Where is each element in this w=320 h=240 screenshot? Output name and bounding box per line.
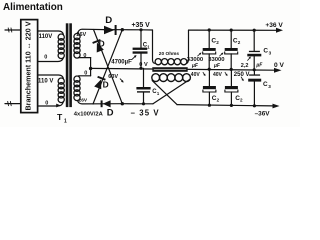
svg-text:2: 2	[238, 40, 241, 45]
svg-text:– 35 V: – 35 V	[131, 108, 160, 117]
svg-text:0: 0	[83, 53, 86, 59]
node C2b top	[230, 29, 233, 32]
diode D1 top	[104, 26, 115, 34]
arrow 40V first	[203, 72, 205, 75]
arrow to C2b	[220, 53, 223, 56]
wire 0V rail	[91, 68, 275, 70]
node center tap	[89, 67, 92, 70]
svg-text:0: 0	[45, 101, 48, 107]
svg-text:26V: 26V	[79, 97, 88, 103]
wire bridge diagonal A	[94, 30, 123, 104]
svg-text:D: D	[103, 80, 109, 90]
wire primary 1 top lead	[38, 31, 64, 34]
svg-text:40V: 40V	[191, 72, 201, 78]
wire choke to +36V rail	[187, 30, 189, 63]
svg-text:110 V: 110 V	[38, 79, 53, 85]
svg-text:26V: 26V	[76, 32, 86, 38]
voltage selector box Branchement 110-220V	[21, 20, 38, 113]
capacitor C2a lower stub	[208, 69, 210, 86]
wire center-tap vertical	[90, 58, 92, 76]
node C3 bottom	[253, 104, 256, 107]
svg-text:+36 V: +36 V	[265, 22, 283, 29]
wire choke X diagonal up	[153, 80, 189, 104]
diode D3 on diagonal B	[94, 76, 106, 90]
svg-text:µF: µF	[213, 63, 221, 69]
node bottom rail after bridge	[121, 102, 124, 105]
svg-text:1: 1	[64, 119, 67, 125]
wire secondary bottom tap 26V	[78, 101, 101, 104]
node C2b bottom	[230, 104, 233, 107]
node C1 lower bottom	[142, 102, 145, 105]
capacitor C2a upper stub	[208, 30, 210, 48]
node C2a bottom	[208, 104, 211, 107]
svg-text:T: T	[57, 112, 63, 122]
svg-text:Branchement 110 ↔ 220 V: Branchement 110 ↔ 220 V	[24, 21, 33, 111]
node C3 top	[253, 29, 256, 32]
wire +35V rail drop to choke	[153, 30, 156, 63]
svg-text:1: 1	[147, 44, 150, 49]
mains input wire top	[5, 29, 21, 31]
arrow 40V second	[225, 72, 227, 75]
svg-text:3: 3	[268, 84, 271, 89]
svg-text:2: 2	[240, 98, 243, 103]
svg-text:0 V: 0 V	[274, 62, 284, 69]
wire bottom rail right	[177, 105, 273, 106]
arrow to C2a	[198, 53, 201, 56]
capacitor C1 lower stub	[143, 68, 145, 87]
node C1 upper top	[139, 28, 142, 31]
arrow to C1 upper	[132, 56, 136, 60]
svg-text:2,2: 2,2	[241, 63, 249, 69]
capacitor C1 upper stub	[140, 30, 142, 48]
wire top rail left	[104, 29, 153, 31]
wire bottom rail left	[101, 103, 153, 105]
capacitor C2b upper stub	[230, 30, 232, 48]
capacitor C3 lower stub	[253, 70, 255, 75]
choke upper winding	[155, 59, 161, 65]
node C2b mid	[230, 68, 233, 71]
wire secondary top tap 26V	[78, 29, 105, 33]
node C2a top	[208, 28, 211, 31]
svg-text:0 V: 0 V	[139, 62, 148, 68]
svg-text:250 V: 250 V	[234, 72, 250, 78]
wire secondary winding1 0 tap	[79, 57, 91, 59]
svg-text:3: 3	[269, 50, 272, 55]
arrow 250V	[241, 77, 243, 80]
svg-text:0: 0	[44, 55, 47, 61]
svg-text:µF: µF	[191, 63, 199, 69]
svg-text:4x100V/2A: 4x100V/2A	[74, 111, 104, 117]
svg-text:D: D	[107, 107, 114, 118]
choke lower winding	[152, 74, 160, 82]
svg-text:µF: µF	[255, 62, 263, 68]
mains input wire bottom	[5, 103, 21, 105]
node C2a mid	[208, 68, 211, 71]
arrow 0V output	[274, 68, 282, 73]
svg-text:D: D	[105, 15, 112, 26]
capacitor C2b lower stub	[230, 69, 232, 86]
svg-text:2: 2	[216, 40, 219, 45]
transformer T1 primary winding 1	[58, 34, 64, 40]
diode D4 bottom	[103, 100, 111, 107]
svg-text:63V: 63V	[108, 74, 118, 80]
svg-text:4700µF: 4700µF	[111, 60, 132, 66]
choke core bar	[152, 67, 187, 72]
transformer T1 core	[66, 23, 69, 107]
svg-text:D: D	[99, 38, 105, 48]
node top rail after bridge	[121, 28, 124, 31]
wire top rail right	[189, 29, 277, 31]
wire primary 2 return lead	[38, 102, 64, 106]
wire primary 2 top lead	[38, 75, 64, 78]
wire primary 1 return lead	[38, 58, 64, 62]
svg-text:40V: 40V	[213, 72, 223, 78]
wire choke X diagonal down	[152, 81, 177, 105]
transformer T1 secondary winding 1	[74, 34, 80, 40]
svg-text:+35 V: +35 V	[132, 22, 151, 29]
capacitor C3 upper stub	[253, 30, 255, 51]
svg-text:110V: 110V	[39, 34, 53, 40]
svg-text:2: 2	[217, 98, 220, 103]
wire secondary winding2 0 tap	[79, 75, 91, 77]
arrow -36V output	[273, 104, 280, 109]
svg-text:–36V: –36V	[255, 110, 271, 117]
node C3 mid	[253, 68, 256, 71]
arrow to C1 lower	[120, 79, 123, 82]
svg-text:Alimentation: Alimentation	[3, 2, 63, 13]
svg-text:20 Ohms: 20 Ohms	[159, 51, 180, 57]
node C1 upper bottom	[139, 67, 142, 70]
wire bridge diagonal B	[93, 30, 122, 104]
arrow 2,2 to C3	[248, 58, 250, 61]
transformer T1 primary winding 2	[58, 78, 64, 84]
diode D2 on diagonal A	[92, 39, 104, 53]
svg-text:1: 1	[157, 91, 160, 96]
arrow +36V output	[276, 28, 283, 33]
transformer T1 secondary winding 2	[74, 76, 80, 82]
